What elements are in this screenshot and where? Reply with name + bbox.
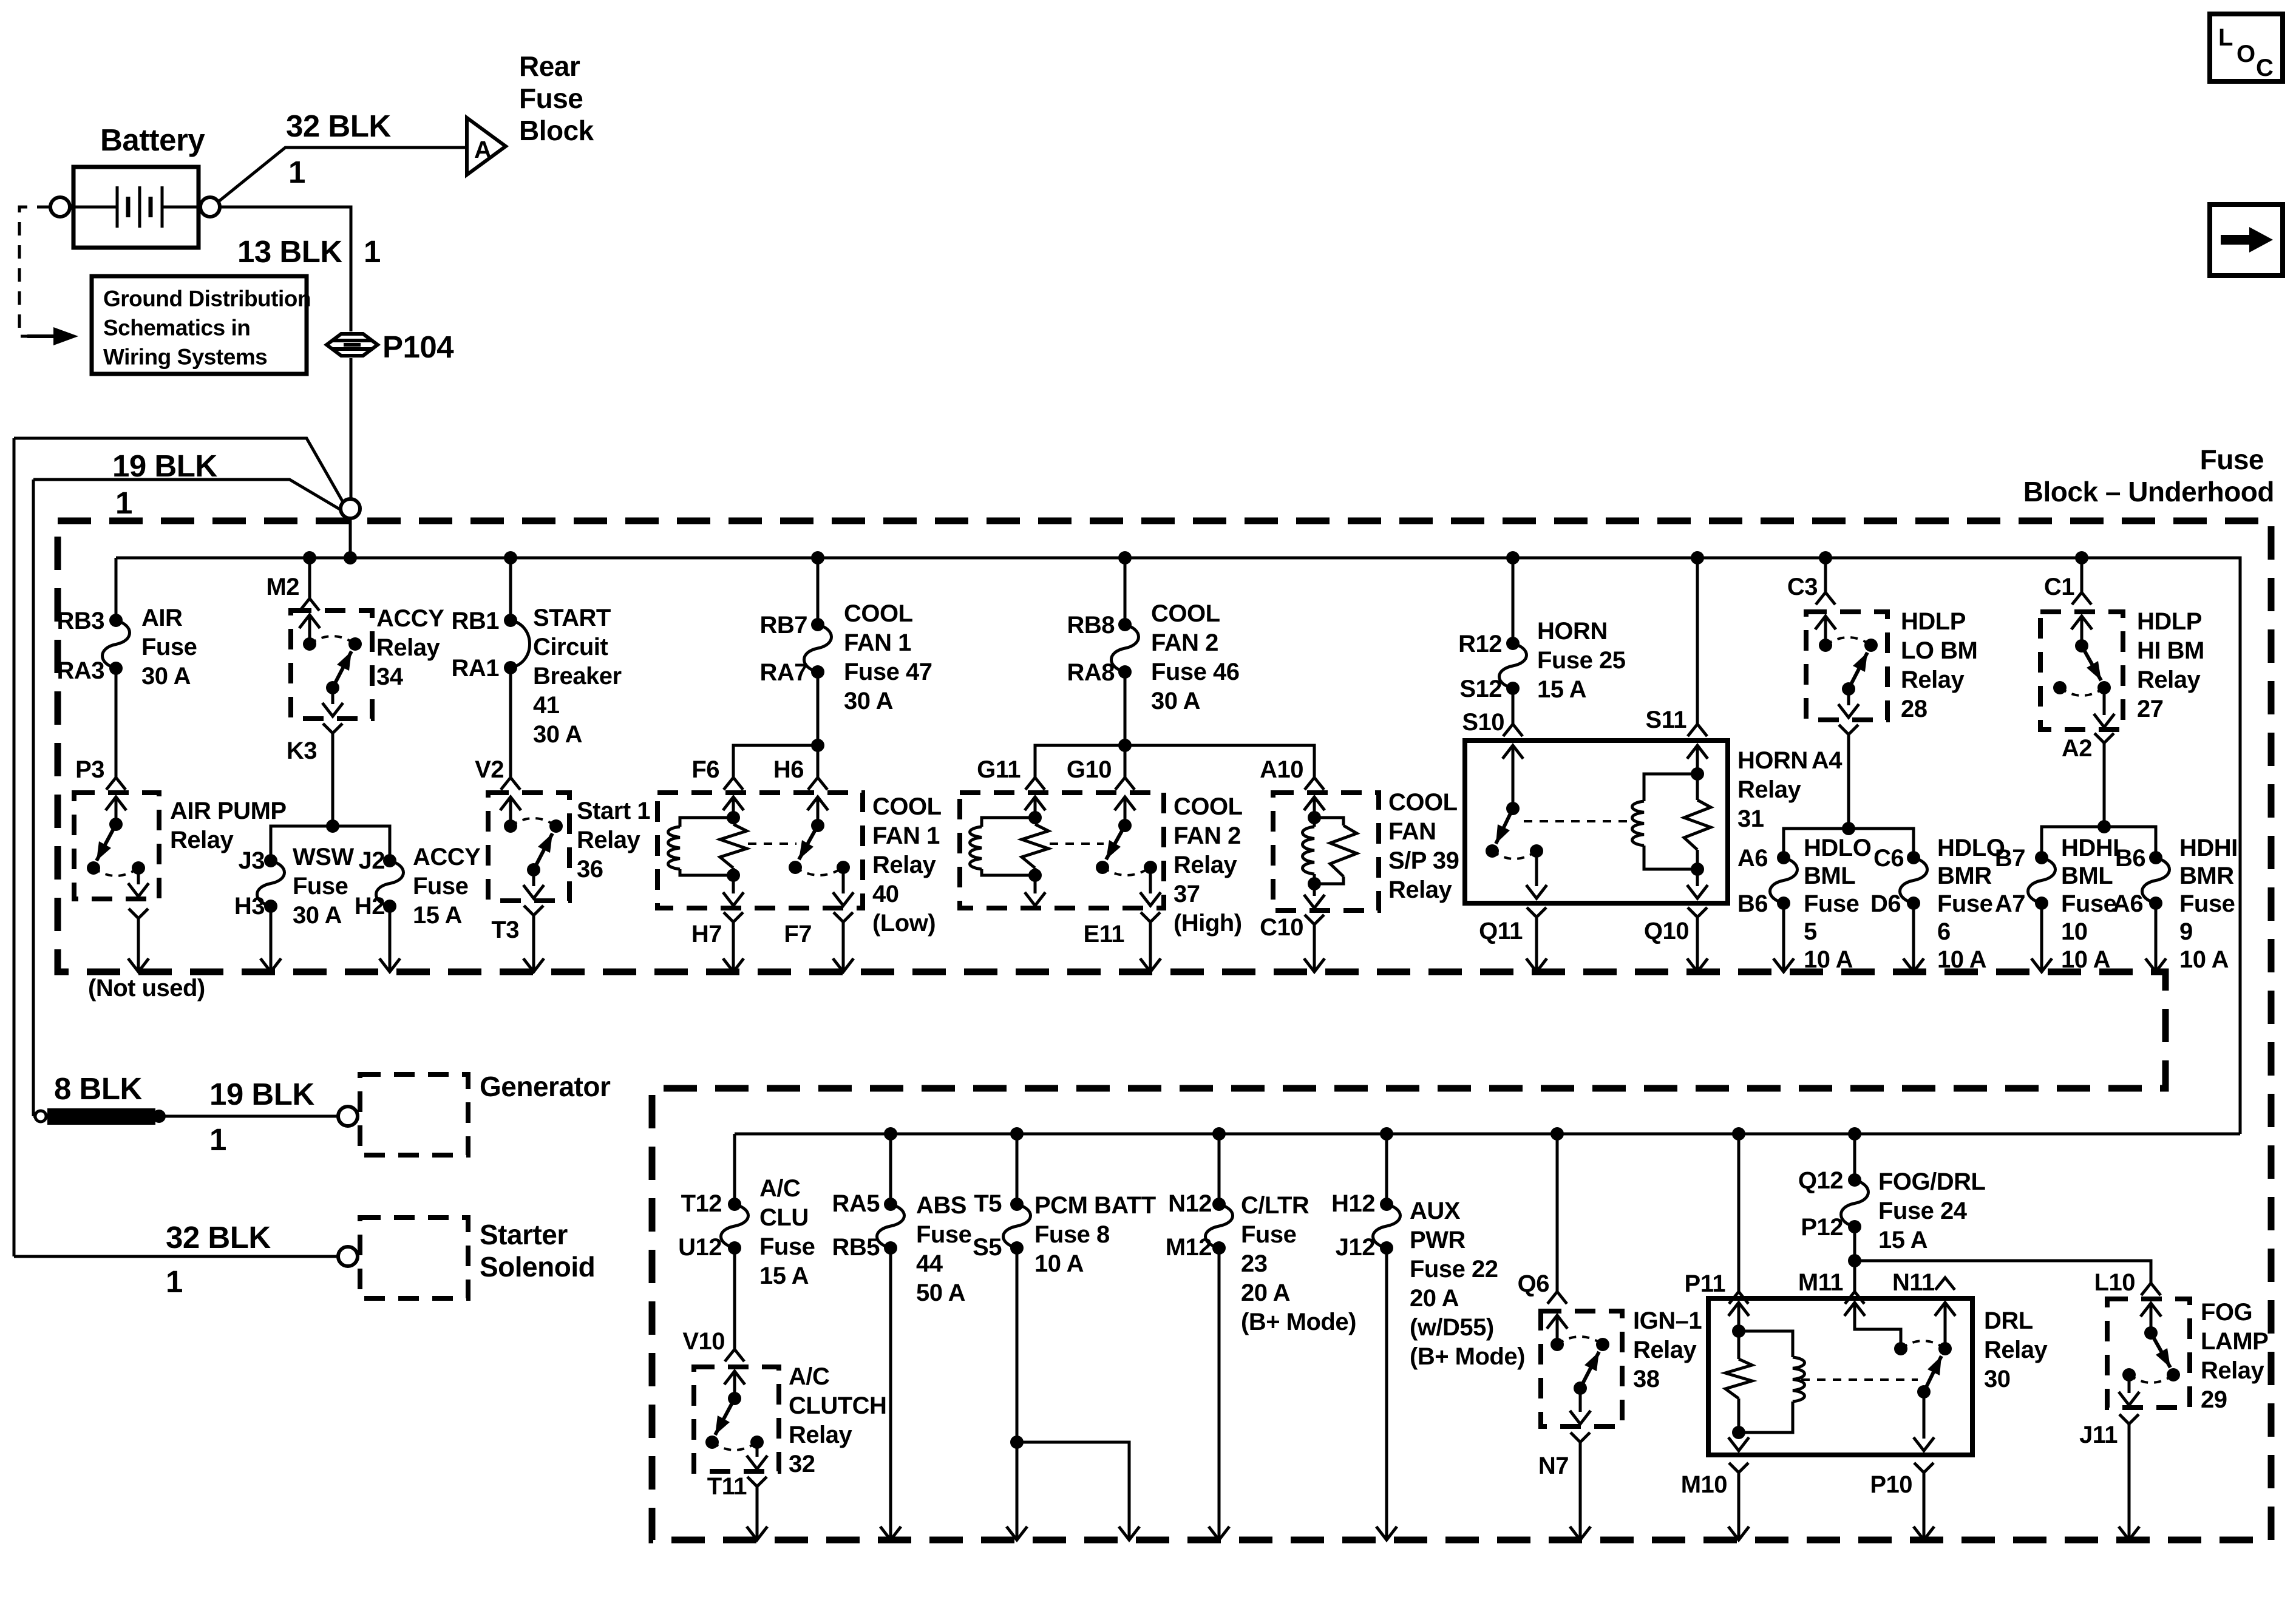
svg-text:37: 37: [1173, 881, 1200, 907]
svg-text:Block – Underhood: Block – Underhood: [2023, 476, 2274, 507]
svg-text:29: 29: [2201, 1386, 2227, 1413]
svg-text:FAN 2: FAN 2: [1173, 822, 1241, 849]
svg-text:Fuse: Fuse: [916, 1221, 971, 1248]
svg-text:50 A: 50 A: [916, 1280, 965, 1306]
svg-text:1: 1: [364, 234, 381, 269]
svg-text:10 A: 10 A: [1034, 1250, 1084, 1277]
svg-text:20 A: 20 A: [1241, 1280, 1290, 1306]
pin S10: [1503, 724, 1523, 736]
svg-text:Relay: Relay: [1737, 776, 1801, 803]
pin G10: [1115, 778, 1135, 790]
svg-text:DRL: DRL: [1984, 1307, 2033, 1334]
svg-text:F6: F6: [691, 756, 719, 783]
pin C10: [1305, 915, 1324, 924]
svg-text:Wiring Systems: Wiring Systems: [103, 345, 267, 370]
svg-text:1: 1: [288, 155, 305, 189]
svg-text:Q10: Q10: [1644, 918, 1689, 944]
horn relay coil output arrow: [1696, 869, 1699, 886]
svg-text:V10: V10: [682, 1328, 725, 1355]
fuse HDLO BMR Fuse 6 10 A (C6/D6): [1907, 851, 1920, 864]
pin M2: [300, 598, 319, 611]
svg-text:23: 23: [1241, 1250, 1268, 1277]
pin J11: [2119, 1414, 2139, 1424]
svg-text:Relay: Relay: [1388, 876, 1452, 903]
svg-text:C: C: [2256, 55, 2273, 81]
svg-text:(Not used): (Not used): [88, 975, 205, 1002]
svg-text:A/C: A/C: [759, 1175, 800, 1202]
svg-text:COOL: COOL: [1151, 600, 1220, 627]
svg-text:C3: C3: [1787, 574, 1818, 600]
generator dashed box: [360, 1074, 468, 1155]
wire M12 ground arrow: [1218, 1248, 1221, 1538]
pin M11: [1845, 1292, 1864, 1304]
svg-text:Fuse: Fuse: [1804, 890, 1859, 917]
pin T3: [524, 906, 543, 915]
svg-text:40: 40: [872, 881, 899, 907]
battery terminal positive: [200, 197, 220, 217]
svg-text:FAN 1: FAN 1: [844, 629, 911, 656]
wire left drop to generator splice: [32, 480, 35, 1116]
svg-text:15 A: 15 A: [413, 902, 462, 929]
drl relay switch output arrow: [1923, 1392, 1926, 1439]
wire bus to Q6: [1556, 1134, 1559, 1292]
wire A7 ground arrow: [2040, 903, 2043, 970]
svg-text:COOL: COOL: [1173, 793, 1243, 820]
connector P104 splice symbol: [327, 334, 378, 356]
svg-text:O: O: [2237, 41, 2255, 67]
coolfan1 actuation dashed link: [748, 842, 796, 845]
junction bus ACCY: [303, 551, 316, 564]
wire 13 BLK battery to P104: [220, 207, 351, 331]
fuse HDHI BML Fuse 10 10 A (B7/A7): [2035, 851, 2048, 864]
relay IGN-1 Relay 38: [1541, 1311, 1622, 1426]
svg-text:A10: A10: [1260, 756, 1303, 783]
relay HDLP LO BM Relay 28: [1806, 612, 1887, 720]
svg-text:30 A: 30 A: [533, 721, 582, 748]
relay DRL Relay 30 box: [1708, 1298, 1972, 1455]
svg-text:J12: J12: [1336, 1234, 1375, 1261]
pin Q6: [1547, 1292, 1567, 1304]
svg-text:HORN: HORN: [1537, 618, 1608, 645]
svg-text:Generator: Generator: [480, 1071, 611, 1102]
svg-text:FOG: FOG: [2201, 1299, 2252, 1326]
svg-text:Fuse: Fuse: [2179, 890, 2235, 917]
pin V10: [725, 1349, 744, 1361]
svg-text:(Low): (Low): [872, 910, 936, 937]
coolfan sp coil and resistor: [1313, 797, 1316, 818]
svg-text:Fuse 47: Fuse 47: [844, 659, 932, 685]
junction bus COOL FAN 1: [811, 551, 824, 564]
fuse HDHI BMR Fuse 9 10 A (B6/A6): [2149, 851, 2162, 864]
starter solenoid dashed box: [360, 1218, 468, 1298]
coolfan2 actuation dashed link: [1050, 842, 1104, 845]
svg-text:D6: D6: [1870, 890, 1901, 917]
svg-text:30: 30: [1984, 1366, 2011, 1392]
wire junction to H6: [817, 745, 820, 778]
svg-text:15 A: 15 A: [759, 1263, 809, 1289]
generator connector ring: [338, 1107, 358, 1126]
horn relay actuation dashed link: [1524, 820, 1627, 822]
svg-text:Relay: Relay: [2137, 666, 2201, 693]
wire 19 BLK to generator: [33, 1115, 35, 1118]
pin N11: [1935, 1278, 1955, 1290]
svg-text:T11: T11: [707, 1473, 747, 1500]
pin P3: [106, 778, 126, 790]
pin N7: [1571, 1432, 1590, 1442]
svg-text:RB7: RB7: [759, 612, 807, 639]
drl relay N11 contact: [1944, 1303, 1947, 1326]
wire B6 ground arrow: [1782, 903, 1785, 970]
svg-text:Fuse: Fuse: [2200, 444, 2264, 475]
svg-text:Rear: Rear: [519, 50, 580, 82]
junction bus AUX PWR: [1380, 1127, 1393, 1141]
svg-text:P10: P10: [1870, 1471, 1912, 1498]
svg-text:C6: C6: [1873, 845, 1904, 872]
svg-text:BML: BML: [1804, 863, 1855, 889]
wire bus to RB1: [509, 558, 512, 620]
svg-text:Fuse: Fuse: [519, 83, 583, 114]
svg-text:M2: M2: [266, 574, 299, 600]
wire E11 ground arrow: [1149, 922, 1152, 970]
coolfan2 coil arm: [1034, 797, 1037, 818]
pin Q11: [1527, 907, 1546, 917]
svg-text:Fuse: Fuse: [759, 1233, 815, 1260]
wire S12 to S10: [1512, 688, 1515, 724]
svg-text:L: L: [2218, 24, 2233, 51]
svg-text:Fuse: Fuse: [2061, 890, 2116, 917]
pin V2: [501, 778, 520, 790]
junction F6/H6: [811, 739, 824, 752]
drl relay resistor: [1737, 1331, 1741, 1359]
wire junction to J3 and J2: [271, 826, 390, 861]
svg-text:(w/D55): (w/D55): [1410, 1314, 1494, 1341]
svg-text:M11: M11: [1798, 1269, 1843, 1296]
wire T11 ground arrow: [756, 1486, 759, 1538]
wire bus to C3: [1824, 558, 1827, 592]
junction HDHI fuses: [2097, 820, 2111, 833]
svg-text:1: 1: [166, 1264, 183, 1299]
wire bus to RB8: [1124, 558, 1127, 625]
svg-text:Fuse 24: Fuse 24: [1878, 1198, 1968, 1224]
svg-text:Fuse 46: Fuse 46: [1151, 659, 1239, 685]
wire H3 to ground arrow: [270, 906, 273, 970]
wire U12 to V10: [733, 1248, 736, 1349]
relay Start 1 Relay 36: [488, 793, 569, 901]
circuit breaker START Circuit Breaker 41 30 A (RB1/RA1): [504, 614, 517, 627]
svg-text:A6: A6: [2113, 890, 2143, 917]
svg-text:Relay: Relay: [577, 827, 640, 853]
battery cells: [70, 206, 117, 209]
wire junction to G10: [1124, 745, 1127, 778]
wire feed ring to bus: [349, 518, 352, 558]
svg-text:Start 1: Start 1: [577, 798, 650, 824]
svg-text:RB8: RB8: [1067, 612, 1115, 639]
svg-text:Q12: Q12: [1798, 1167, 1843, 1194]
svg-text:A: A: [474, 137, 491, 163]
fuse COOL FAN 2 Fuse 46 30 A (RB8/RA8): [1118, 618, 1132, 631]
svg-text:K3: K3: [287, 737, 317, 764]
svg-text:RA7: RA7: [759, 659, 807, 686]
svg-text:Relay: Relay: [1984, 1337, 2048, 1363]
starter connector ring: [338, 1247, 358, 1266]
svg-text:19 BLK: 19 BLK: [112, 449, 217, 483]
relay HORN Relay 31 box: [1465, 741, 1728, 903]
pin A4: [1839, 725, 1858, 734]
pin S11: [1688, 724, 1707, 736]
pin F7: [834, 912, 853, 922]
junction bus PCM BATT: [1010, 1127, 1024, 1141]
wire branch to L10: [1855, 1261, 2151, 1283]
wire N7 ground arrow: [1579, 1442, 1582, 1538]
svg-text:LO BM: LO BM: [1901, 637, 1977, 664]
svg-text:13 BLK: 13 BLK: [237, 234, 342, 269]
coolfan1 coil arm: [732, 797, 735, 818]
svg-text:(B+ Mode): (B+ Mode): [1241, 1309, 1356, 1335]
pin P11: [1729, 1292, 1748, 1304]
svg-text:Relay: Relay: [376, 634, 440, 661]
svg-text:BMR: BMR: [1937, 863, 1992, 889]
coolfan2 coil output arrow: [1034, 875, 1037, 893]
svg-text:T12: T12: [681, 1190, 722, 1217]
svg-text:A7: A7: [1995, 890, 2025, 917]
svg-text:Relay: Relay: [1173, 852, 1237, 878]
svg-text:A6: A6: [1737, 845, 1768, 872]
svg-text:CLUTCH: CLUTCH: [789, 1392, 886, 1419]
junction HDLO fuses: [1842, 822, 1855, 835]
wire left drop to starter solenoid: [13, 438, 16, 1256]
svg-text:U12: U12: [678, 1234, 722, 1261]
svg-text:S5: S5: [973, 1234, 1002, 1261]
relay COOL FAN 2 Relay 37 (High) box: [960, 793, 1164, 908]
svg-text:A4: A4: [1812, 747, 1843, 774]
svg-text:Breaker: Breaker: [533, 663, 622, 690]
svg-text:RB3: RB3: [56, 608, 104, 634]
svg-text:Relay: Relay: [170, 827, 234, 853]
svg-text:G10: G10: [1067, 756, 1112, 783]
svg-text:COOL: COOL: [872, 793, 942, 820]
svg-text:HDLO: HDLO: [1804, 835, 1871, 861]
pin F6: [724, 778, 743, 790]
fuse FOG/DRL Fuse 24 15 A (Q12/P12): [1848, 1173, 1861, 1187]
svg-text:S/P 39: S/P 39: [1388, 847, 1459, 874]
svg-text:20 A: 20 A: [1410, 1285, 1459, 1312]
svg-text:H12: H12: [1331, 1190, 1375, 1217]
svg-text:19 BLK: 19 BLK: [209, 1077, 314, 1111]
wire junction to A10: [1125, 745, 1314, 778]
wire Q11 ground arrow: [1535, 917, 1538, 970]
relay FOG LAMP Relay 29: [2107, 1299, 2190, 1408]
wire bus to P11: [1737, 1134, 1741, 1292]
pin C1: [2072, 592, 2091, 605]
svg-text:PWR: PWR: [1410, 1227, 1466, 1253]
svg-text:Fuse: Fuse: [1937, 890, 1992, 917]
svg-text:6: 6: [1937, 918, 1951, 945]
svg-text:AUX: AUX: [1410, 1198, 1461, 1224]
svg-text:Relay: Relay: [789, 1422, 852, 1448]
main bus wire lower: [735, 1133, 2240, 1136]
svg-text:32 BLK: 32 BLK: [166, 1220, 271, 1255]
junction bus HORN fuse: [1506, 551, 1520, 564]
svg-text:HI BM: HI BM: [2137, 637, 2204, 664]
svg-text:Fuse 25: Fuse 25: [1537, 647, 1626, 674]
svg-text:AIR: AIR: [141, 605, 183, 631]
junction bus S11: [1691, 551, 1704, 564]
svg-text:B6: B6: [2115, 845, 2145, 872]
svg-text:RB5: RB5: [832, 1234, 880, 1261]
svg-text:H6: H6: [773, 756, 804, 783]
wire bus to AIR fuse: [115, 558, 118, 620]
battery terminal negative: [50, 197, 70, 217]
relay ACCY Relay 34: [291, 611, 372, 719]
svg-text:S11: S11: [1646, 707, 1687, 733]
wire bus to M2: [308, 558, 311, 598]
off-page connector A triangle: [467, 118, 506, 175]
svg-text:Starter: Starter: [480, 1219, 568, 1250]
svg-text:Solenoid: Solenoid: [480, 1251, 595, 1283]
junction bus ABS: [884, 1127, 897, 1141]
LOC legend box: [2210, 14, 2283, 81]
wire P12 to M11 and branch L10: [1853, 1227, 1856, 1292]
svg-text:G11: G11: [977, 756, 1021, 783]
svg-text:R12: R12: [1458, 631, 1502, 657]
svg-text:CLU: CLU: [759, 1204, 809, 1231]
wire J11 ground arrow: [2128, 1424, 2131, 1538]
fuse PCM BATT Fuse 8 10 A (T5/S5): [1010, 1198, 1024, 1211]
svg-text:V2: V2: [475, 756, 504, 783]
relay COOL FAN 1 Relay 40 (Low) box: [657, 793, 863, 908]
svg-text:J3: J3: [239, 847, 265, 874]
svg-text:AIR PUMP: AIR PUMP: [170, 798, 287, 824]
svg-text:P104: P104: [382, 330, 454, 364]
svg-text:HDLP: HDLP: [1901, 608, 1966, 635]
wire junction to B7 and B6: [2042, 827, 2156, 858]
svg-text:F7: F7: [784, 921, 812, 947]
wire 32 BLK to starter solenoid: [14, 1255, 338, 1258]
svg-text:H3: H3: [234, 893, 265, 920]
svg-text:30 A: 30 A: [844, 688, 893, 714]
svg-text:WSW: WSW: [293, 844, 354, 870]
svg-text:B7: B7: [1995, 845, 2025, 872]
svg-text:B6: B6: [1737, 890, 1768, 917]
svg-text:J11: J11: [2079, 1422, 2118, 1448]
fuse COOL FAN 1 Fuse 47 30 A (RB7/RA7): [811, 618, 824, 631]
svg-text:L10: L10: [2094, 1269, 2135, 1296]
junction bus COOL FAN 2: [1118, 551, 1132, 564]
wire M10 ground arrow: [1737, 1473, 1741, 1538]
svg-text:36: 36: [577, 856, 603, 883]
pin Q10: [1688, 907, 1707, 917]
coolfan1 resistor: [732, 818, 735, 824]
svg-text:HDLP: HDLP: [2137, 608, 2202, 635]
pin E11: [1141, 912, 1160, 922]
svg-text:P11: P11: [1685, 1270, 1726, 1297]
svg-text:41: 41: [533, 692, 560, 719]
svg-text:10: 10: [2061, 918, 2088, 945]
fuse C/LTR Fuse 23 20 A (N12/M12): [1212, 1198, 1226, 1211]
wire D6 ground arrow: [1912, 903, 1915, 970]
wire 32 BLK to rear fuse block: [219, 147, 465, 202]
svg-text:RA3: RA3: [56, 657, 104, 684]
svg-text:FAN: FAN: [1388, 818, 1436, 845]
svg-text:HDHI: HDHI: [2179, 835, 2238, 861]
wire 19 BLK upper run: [14, 438, 344, 503]
coolfan1 switch: [817, 797, 820, 825]
pin T11: [747, 1477, 767, 1486]
coolfan2 switch: [1124, 797, 1127, 825]
relay COOL FAN S/P 39 Relay box: [1273, 793, 1379, 910]
svg-text:32: 32: [789, 1451, 815, 1477]
svg-text:15 A: 15 A: [1537, 676, 1586, 703]
svg-text:ACCY: ACCY: [376, 605, 444, 632]
fuse AIR Fuse 30 A (RB3/RA3): [109, 614, 123, 627]
svg-text:30 A: 30 A: [293, 902, 342, 929]
wire F7 ground arrow: [842, 922, 845, 970]
junction WSW/ACCY fuses: [326, 819, 339, 833]
svg-text:H7: H7: [691, 921, 722, 947]
relay A/C CLUTCH Relay 32: [694, 1367, 779, 1471]
junction bus START: [504, 551, 517, 564]
wire P104 to fuse block feed: [350, 358, 353, 499]
ground dashed wire from battery negative: [19, 207, 50, 336]
wire C10 ground arrow: [1313, 924, 1316, 970]
svg-text:Battery: Battery: [100, 123, 205, 157]
svg-text:Relay: Relay: [1633, 1337, 1697, 1363]
svg-text:Relay: Relay: [1901, 666, 1965, 693]
junction FOG/DRL branch: [1848, 1254, 1861, 1267]
wire bus to N12: [1218, 1134, 1221, 1204]
svg-text:31: 31: [1737, 805, 1764, 832]
svg-text:PCM BATT: PCM BATT: [1034, 1192, 1156, 1219]
wire H2 to ground arrow: [389, 906, 392, 970]
fuse HORN Fuse 25 15 A (R12/S12): [1506, 637, 1520, 650]
svg-text:S10: S10: [1462, 709, 1504, 736]
drl relay actuation dashed link: [1801, 1378, 1918, 1381]
wire bus to R12: [1512, 558, 1515, 643]
svg-text:8 BLK: 8 BLK: [54, 1071, 143, 1106]
wire J12 ground arrow: [1385, 1248, 1388, 1538]
svg-text:H2: H2: [355, 893, 385, 920]
wire junction to F6: [733, 745, 818, 778]
fuse AUX PWR Fuse 22 20 A (H12/J12): [1380, 1198, 1393, 1211]
svg-text:N11: N11: [1892, 1269, 1935, 1296]
svg-text:Fuse: Fuse: [413, 873, 468, 900]
pin M10: [1729, 1463, 1748, 1473]
drl relay switch arm: [1924, 1356, 1941, 1392]
wire S5 down with branch: [1016, 1248, 1019, 1538]
wire RA8 to G11/G10/A10 junction: [1124, 672, 1127, 745]
svg-text:Q11: Q11: [1479, 918, 1523, 944]
wire A6 ground arrow: [2155, 903, 2158, 970]
wire K3 to fuse junction: [331, 733, 335, 826]
svg-text:E11: E11: [1084, 921, 1125, 947]
svg-text:(B+ Mode): (B+ Mode): [1410, 1343, 1525, 1370]
fuse HDLO BML Fuse 5 10 A (A6/B6): [1777, 851, 1790, 864]
svg-text:A/C: A/C: [789, 1363, 829, 1390]
wire T3 to ground arrow: [532, 915, 535, 970]
pin H7: [724, 912, 743, 922]
svg-text:10 A: 10 A: [2061, 946, 2110, 973]
splice 8 BLK: [35, 1111, 46, 1122]
svg-text:9: 9: [2179, 918, 2193, 945]
fuse block underhood dashed outline: [58, 521, 2271, 1540]
svg-text:44: 44: [916, 1250, 943, 1277]
wire bus to T5: [1016, 1134, 1019, 1204]
coolfan1 coil output arrow: [732, 875, 735, 893]
coolfan1 switch output arrow: [842, 867, 845, 893]
svg-text:M10: M10: [1681, 1471, 1727, 1498]
wire 19 BLK lower run: [33, 480, 342, 510]
svg-text:N7: N7: [1538, 1453, 1569, 1479]
